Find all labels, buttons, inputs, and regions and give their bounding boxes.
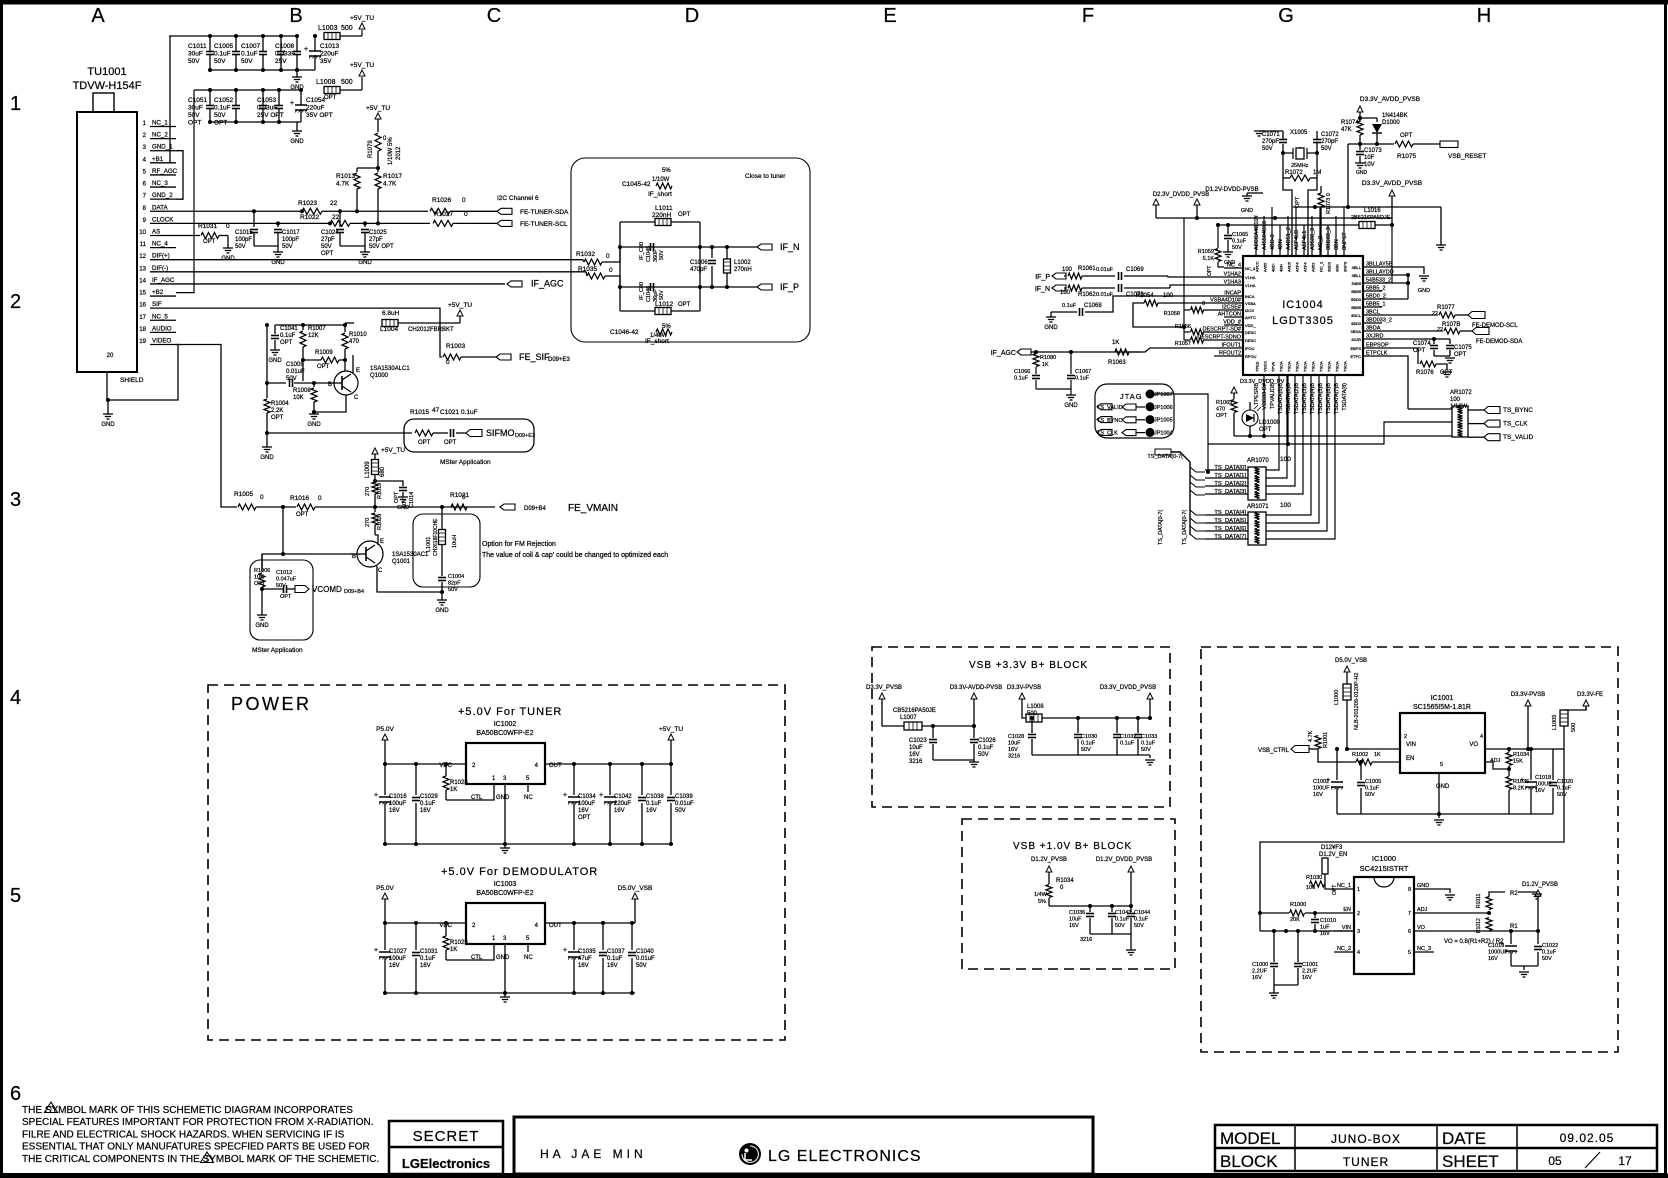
svg-text:D12¥F3: D12¥F3 [1321, 845, 1343, 851]
svg-text:The value of coil & cap' could: The value of coil & cap' could be change… [482, 552, 668, 559]
svg-text:R107B: R107B [1442, 322, 1460, 328]
svg-text:IF_C80: IF_C80 [639, 282, 645, 300]
power +5V_TU arrow L1009 [372, 448, 378, 454]
svg-text:16V: 16V [646, 808, 657, 814]
svg-text:50V: 50V [448, 587, 458, 593]
svg-text:10uF: 10uF [1008, 741, 1021, 747]
svg-text:C1002: C1002 [1313, 779, 1329, 785]
svg-text:C1020: C1020 [1557, 779, 1573, 785]
wire DIF+ line [176, 259, 583, 261]
power D3.3V_PVSB [879, 693, 885, 699]
svg-text:50V: 50V [1262, 146, 1273, 152]
ground vsb33 [1149, 755, 1151, 758]
svg-text:+5.0V For TUNER: +5.0V For TUNER [458, 706, 562, 718]
svg-text:R1057: R1057 [1175, 341, 1191, 347]
svg-text:R1003: R1003 [446, 343, 466, 350]
svg-text:16V: 16V [909, 752, 920, 758]
svg-text:470: 470 [349, 339, 360, 345]
svg-text:D3.3V_DVDD_PV: D3.3V_DVDD_PV [1240, 379, 1285, 385]
gnd IC1001 [1438, 773, 1440, 814]
svg-text:IF_P: IF_P [780, 282, 799, 292]
svg-text:CH2618F10CHE: CH2618F10CHE [433, 518, 439, 556]
svg-text:IC1000: IC1000 [1372, 854, 1396, 863]
svg-text:2: 2 [10, 291, 21, 313]
svg-text:D09+B4: D09+B4 [344, 589, 364, 595]
svg-text:C1021 0.1uF: C1021 0.1uF [440, 409, 478, 416]
power D1.2V_DVDD_PVSB [1128, 866, 1134, 872]
svg-text:Close to tuner: Close to tuner [745, 173, 786, 180]
regulator IC1000 body [1354, 877, 1414, 974]
svg-text:R1080: R1080 [1040, 355, 1056, 361]
svg-text:C: C [487, 5, 501, 27]
svg-text:0.1uF: 0.1uF [1120, 741, 1135, 747]
svg-text:OPT: OPT [324, 95, 337, 101]
vertical from D3.3V down right side of IC [1391, 225, 1393, 283]
svg-text:VSB_CTRL: VSB_CTRL [1258, 748, 1290, 754]
svg-text:OPT: OPT [203, 239, 216, 245]
svg-text:D3.3V-PVSB: D3.3V-PVSB [1511, 692, 1545, 698]
svg-text:GND: GND [1241, 208, 1253, 214]
svg-text:C1030: C1030 [1081, 734, 1097, 740]
svg-text:AR1072: AR1072 [1450, 390, 1472, 396]
wire from IC1001 down to here [1260, 749, 1564, 931]
wire JP1007 riser [1152, 394, 1208, 472]
svg-text:3BLL: 3BLL [1352, 273, 1362, 278]
resistor R1027 [433, 220, 453, 226]
svg-text:L1008: L1008 [1027, 704, 1044, 710]
svg-text:TSDA: TSDA [1295, 361, 1300, 372]
svg-text:3BD33_3: 3BD33_3 [1326, 227, 1332, 250]
svg-text:I2CS: I2CS [1245, 308, 1254, 313]
svg-text:10: 10 [139, 230, 146, 236]
svg-text:TSDA: TSDA [1335, 361, 1340, 372]
resistor R1075 OPT [1395, 141, 1413, 147]
svg-text:C1032: C1032 [1120, 734, 1136, 740]
net tag SIFMO [466, 430, 482, 437]
capacitor C1072 [1313, 139, 1321, 141]
svg-text:500: 500 [341, 79, 353, 86]
resistor R1008 10K [313, 383, 315, 387]
wire GND1/GND2 bracket [176, 151, 183, 200]
bottom rail IC1001 [1337, 813, 1439, 815]
svg-text:C1004: C1004 [448, 574, 464, 580]
wire vin [1347, 748, 1400, 750]
svg-text:C1013: C1013 [320, 43, 340, 50]
power D5.0V_VSB arrow [632, 893, 638, 899]
svg-text:10uF: 10uF [909, 745, 923, 751]
svg-text:FE-TUNER-SCL: FE-TUNER-SCL [520, 221, 568, 228]
capacitor C1010 [1313, 911, 1317, 915]
svg-text:16V: 16V [1252, 975, 1262, 981]
svg-text:16V: 16V [1488, 956, 1498, 962]
svg-text:OPT: OPT [1332, 885, 1338, 895]
svg-text:12K: 12K [308, 333, 319, 339]
ground C1071 [1259, 130, 1283, 132]
svg-text:MSter Application: MSter Application [440, 459, 491, 466]
svg-text:0.1uF: 0.1uF [1075, 376, 1090, 382]
ground AS [223, 247, 233, 249]
svg-text:16V: 16V [389, 808, 400, 814]
svg-text:A5F4: A5F4 [1295, 262, 1300, 272]
svg-text:E: E [883, 5, 896, 27]
top rail bus 2 [194, 89, 301, 91]
svg-text:OPT: OPT [296, 512, 309, 518]
svg-text:GND_2: GND_2 [152, 192, 173, 199]
svg-text:OPT: OPT [1207, 266, 1213, 276]
svg-text:IF_short: IF_short [645, 338, 669, 345]
svg-text:GND: GND [221, 256, 235, 262]
svg-text:GND: GND [1356, 170, 1368, 176]
wires right pins to nets [1382, 267, 1424, 274]
net tag VCOMD [295, 586, 309, 593]
svg-text:NC: NC [524, 795, 533, 801]
svg-text:L1003: L1003 [318, 25, 338, 32]
svg-text:TPES: TPES [1255, 361, 1260, 372]
svg-text:POWER: POWER [231, 694, 312, 714]
svg-text:R1061: R1061 [1078, 266, 1096, 272]
svg-text:C1009: C1009 [286, 362, 304, 368]
svg-text:C1022: C1022 [1542, 943, 1558, 949]
svg-text:OPT: OPT [1216, 413, 1228, 419]
svg-text:C1075: C1075 [1454, 345, 1472, 351]
regulator IC1002 [466, 743, 545, 784]
svg-text:OPT: OPT [271, 415, 284, 421]
vertical bus x1408 [1407, 275, 1409, 299]
svg-text:+B1: +B1 [152, 156, 164, 163]
svg-text:C1044: C1044 [1134, 910, 1150, 916]
svg-text:C1065: C1065 [1232, 232, 1248, 238]
svg-text:D2.3V_DVDD_PVSB: D2.3V_DVDD_PVSB [1153, 192, 1209, 198]
svg-text:0.1uF: 0.1uF [1081, 741, 1096, 747]
svg-text:100: 100 [1450, 397, 1461, 403]
caps C1002 C1005b [1335, 747, 1339, 751]
wire VO IC1000 [1434, 930, 1538, 932]
svg-text:17: 17 [139, 315, 146, 321]
svg-text:TSDA: TSDA [1319, 361, 1324, 372]
svg-text:C1033: C1033 [1141, 734, 1157, 740]
svg-text:50V: 50V [978, 752, 989, 758]
svg-text:OPT: OPT [280, 594, 292, 600]
svg-text:GND: GND [1044, 325, 1058, 331]
svg-text:TU1001: TU1001 [87, 66, 126, 78]
svg-text:R1026: R1026 [432, 197, 452, 204]
svg-text:100: 100 [1280, 456, 1291, 463]
power D3.3V-PVSB 2 [1019, 693, 1025, 699]
collector wire to R1008 node [314, 395, 346, 412]
svg-text:OPT: OPT [1400, 133, 1413, 139]
regulator IC1003 [466, 903, 545, 944]
svg-text:C1052: C1052 [214, 97, 234, 104]
svg-text:R1000: R1000 [1290, 902, 1306, 908]
svg-text:4: 4 [1480, 734, 1483, 740]
svg-text:50V: 50V [235, 244, 246, 250]
svg-text:GND: GND [307, 422, 321, 428]
svg-text:0.01uF: 0.01uF [286, 369, 305, 375]
svg-text:82pF: 82pF [448, 581, 461, 587]
svg-text:DIF(-): DIF(-) [152, 265, 168, 272]
svg-text:INCA: INCA [1245, 294, 1255, 299]
svg-text:GND: GND [496, 795, 510, 801]
svg-text:TS_CLK: TS_CLK [1503, 421, 1528, 428]
svg-text:3NPST: 3NPST [1342, 232, 1348, 250]
svg-text:16V: 16V [1069, 923, 1079, 929]
svg-text:3BD033_2: 3BD033_2 [1366, 318, 1392, 324]
svg-text:50V: 50V [659, 250, 665, 260]
svg-text:3BD0: 3BD0 [1351, 321, 1362, 326]
power D5.0V_VSB arrow [1344, 666, 1350, 672]
svg-text:VIN: VIN [1342, 925, 1351, 931]
svg-text:VO: VO [1469, 742, 1478, 748]
svg-text:3BDA: 3BDA [1366, 326, 1381, 332]
svg-text:1K: 1K [450, 947, 457, 953]
svg-text:OPT: OPT [418, 440, 431, 446]
svg-text:IF_AGC: IF_AGC [531, 278, 564, 288]
caps C1028 C1030 C1032 C1033 [1030, 716, 1034, 720]
ground C1066 C1067 [1036, 388, 1071, 390]
svg-text:I2CSE#: I2CSE# [1222, 305, 1242, 311]
svg-text:16V: 16V [420, 963, 431, 969]
svg-text:4: 4 [10, 687, 21, 709]
svg-text:+: + [599, 792, 603, 799]
svg-text:10F: 10F [1364, 155, 1375, 161]
svg-text:TS_DATA[2]: TS_DATA[2] [1214, 481, 1246, 487]
caps C1018 C1020 [1530, 749, 1532, 780]
wires into AR1072 left [1408, 408, 1452, 410]
svg-text:D5.0V_VSB: D5.0V_VSB [1335, 658, 1367, 664]
wires AR1072 to TS tags [1468, 409, 1484, 411]
wire IF_N [620, 246, 757, 248]
svg-text:C1031: C1031 [420, 949, 438, 955]
resistor R1031 on AS pin [176, 234, 200, 236]
svg-text:!: ! [50, 1106, 52, 1113]
capacitor C1006 470pF [711, 247, 713, 258]
svg-text:C1024: C1024 [321, 230, 339, 236]
svg-text:C1051: C1051 [188, 97, 208, 104]
svg-text:TS_BYNC: TS_BYNC [1503, 407, 1533, 414]
wire ETPCLK to AR1072 [1382, 356, 1408, 409]
IC1004 right pins [1363, 266, 1382, 268]
TS_DATA fan bundle [1171, 452, 1190, 535]
svg-text:Q1000: Q1000 [370, 373, 389, 379]
power +5V_TU for L1004 [457, 310, 463, 316]
svg-text:NC_4: NC_4 [152, 241, 168, 248]
svg-text:+5.0V For DEMODULATOR: +5.0V For DEMODULATOR [441, 866, 598, 878]
wire DIF- line [176, 271, 586, 273]
svg-text:OPT: OPT [317, 364, 330, 370]
power P5.0V arrow tuner [382, 734, 388, 740]
svg-text:R1076: R1076 [1416, 370, 1434, 376]
svg-text:IC1001: IC1001 [1431, 695, 1454, 702]
svg-text:IF_C80: IF_C80 [639, 242, 645, 260]
svg-text:C1042: C1042 [614, 794, 632, 800]
ground L1016 right [1436, 244, 1446, 246]
svg-text:A5F4L1: A5F4L1 [1302, 231, 1308, 250]
svg-text:C1005: C1005 [214, 43, 234, 50]
svg-text:C1035: C1035 [578, 949, 596, 955]
svg-text:220uF: 220uF [614, 801, 631, 807]
capacitor C1069 series [1118, 272, 1120, 280]
capacitor C1073 10uF [1359, 144, 1361, 150]
inductor L1005 vertical [1583, 700, 1589, 706]
resistor R1034 ADJ [1507, 747, 1511, 751]
svg-text:TS_DATA[0-7(: TS_DATA[0-7( [1182, 510, 1188, 545]
svg-text:0.033F: 0.033F [275, 51, 295, 58]
svg-text:2: 2 [1357, 911, 1360, 917]
svg-text:1M: 1M [1313, 170, 1321, 176]
svg-text:0.01uF: 0.01uF [1096, 267, 1114, 273]
POWER dashed box [208, 685, 785, 1040]
resistor R1029 1K [445, 950, 447, 960]
svg-text:100: 100 [1280, 502, 1291, 509]
capacitor C1026 [973, 726, 975, 738]
svg-text:JTAG: JTAG [1120, 392, 1143, 401]
svg-text:3: 3 [1357, 929, 1360, 935]
capacitor C1065 [1226, 223, 1230, 227]
resistor array AR1071 [1248, 512, 1266, 545]
svg-text:C1071: C1071 [1262, 132, 1280, 138]
svg-text:R1013: R1013 [336, 173, 356, 180]
svg-text:0.01uF: 0.01uF [636, 956, 655, 962]
svg-text:18: 18 [139, 327, 146, 333]
svg-text:NC: NC [524, 955, 533, 961]
svg-text:1K: 1K [1374, 752, 1381, 758]
svg-text:VSB +3.3V B+ BLOCK: VSB +3.3V B+ BLOCK [969, 660, 1088, 671]
svg-text:C1068: C1068 [1084, 303, 1102, 309]
svg-text:1SA1530AC1: 1SA1530AC1 [392, 552, 429, 558]
svg-text:3216: 3216 [1080, 937, 1092, 943]
right caps demod [573, 923, 575, 950]
wire IF_P [620, 286, 757, 288]
svg-text:16V: 16V [607, 963, 618, 969]
svg-text:1K: 1K [1112, 340, 1119, 346]
resistor R1072 1M [1282, 153, 1284, 178]
resistor R1019 270 [372, 482, 378, 494]
svg-text:1/10W: 1/10W [652, 177, 670, 183]
svg-text:TSDA: TSDA [1343, 361, 1348, 372]
svg-text:I2C Channel 6: I2C Channel 6 [497, 195, 539, 202]
svg-text:D3.3V-AVDD-PVSB: D3.3V-AVDD-PVSB [950, 685, 1003, 691]
IF coupling network wires [620, 221, 655, 223]
capacitor C1067 [1069, 350, 1073, 354]
inductor L1004 6.8uH [382, 320, 398, 327]
wire FE_VMAIN right [450, 506, 495, 508]
svg-text:IF_N: IF_N [1035, 286, 1050, 293]
svg-text:470: 470 [1216, 407, 1225, 413]
svg-text:C1066: C1066 [1014, 369, 1030, 375]
svg-text:1N414BK: 1N414BK [1382, 113, 1408, 119]
svg-text:7: 7 [1408, 911, 1411, 917]
svg-text:D3.3V-FE: D3.3V-FE [1577, 692, 1603, 698]
svg-text:INCAP: INCAP [1224, 291, 1241, 297]
svg-text:NC_3: NC_3 [1417, 946, 1431, 952]
resistor R1013 4.7K [376, 166, 380, 170]
svg-text:16V: 16V [389, 963, 400, 969]
capacitor C1013 220uF polarized [314, 36, 316, 51]
caps C1019 C1022 [1510, 931, 1512, 944]
svg-text:IC1003: IC1003 [494, 881, 517, 888]
svg-text:A953: A953 [1311, 262, 1316, 272]
bottom rail right IC1001 [1439, 813, 1553, 815]
wire SIF to FE_SIF [176, 308, 442, 357]
svg-text:TPVALIDB: TPVALIDB [1270, 383, 1276, 410]
svg-text:D3.3V_DVDD_PVSB: D3.3V_DVDD_PVSB [1100, 685, 1156, 691]
svg-text:Q1001: Q1001 [392, 559, 411, 565]
svg-text:IF_AGC: IF_AGC [991, 350, 1016, 357]
capacitor C1024 27pF [339, 211, 341, 227]
warning triangle 2 [201, 1152, 214, 1163]
ground C1019 [1523, 966, 1525, 970]
svg-text:1K: 1K [1042, 362, 1049, 368]
svg-text:R1016: R1016 [290, 495, 310, 502]
svg-text:50V OPT: 50V OPT [369, 244, 394, 250]
svg-text:B: B [352, 554, 356, 560]
svg-text:R1054: R1054 [1136, 293, 1154, 299]
svg-text:3BDA: 3BDA [1351, 329, 1362, 334]
svg-text:5%: 5% [1038, 899, 1046, 905]
svg-text:R1032: R1032 [576, 251, 596, 258]
svg-text:6: 6 [10, 1083, 21, 1105]
wires from arrays to IC bottom pins staircase [1266, 375, 1279, 470]
svg-text:C1069: C1069 [1126, 267, 1144, 273]
svg-text:FE_VMAIN: FE_VMAIN [568, 503, 618, 514]
CTL loop demod [446, 952, 494, 960]
svg-text:0.01uF: 0.01uF [675, 801, 694, 807]
svg-text:22: 22 [1437, 327, 1443, 333]
svg-text:0.1uF: 0.1uF [607, 956, 623, 962]
svg-text:10uH: 10uH [452, 535, 458, 548]
resistor R1007 12K [302, 325, 304, 330]
power P5.0V arrow demod [382, 893, 388, 899]
svg-text:JUNO-BOX: JUNO-BOX [1331, 1132, 1401, 1146]
ground C1015/C1017 [277, 246, 279, 252]
svg-text:50V: 50V [1081, 747, 1091, 753]
capacitor C1015 100pF [253, 211, 255, 227]
ground tuner shield [103, 413, 113, 415]
svg-text:C1074: C1074 [1413, 341, 1431, 347]
svg-text:1uF: 1uF [1320, 925, 1330, 931]
svg-text:OPT: OPT [1259, 427, 1272, 433]
svg-text:0: 0 [606, 253, 610, 260]
svg-text:L1009: L1009 [365, 461, 371, 478]
svg-text:ADJ: ADJ [1417, 907, 1428, 913]
svg-text:3XJRD: 3XJRD [1366, 334, 1383, 340]
svg-text:0: 0 [1202, 301, 1205, 307]
svg-text:L1004: L1004 [380, 326, 398, 333]
svg-text:LD1000: LD1000 [1259, 420, 1281, 426]
svg-text:C1018: C1018 [1535, 775, 1551, 781]
svg-text:0.1uF: 0.1uF [1232, 239, 1247, 245]
capacitor C1046 series lower [650, 283, 652, 291]
ground R1008 [309, 413, 319, 415]
svg-text:A9533_3: A9533_3 [1310, 228, 1316, 250]
power +5V_TU arrow for R1079 [375, 113, 381, 119]
svg-text:C1034: C1034 [578, 794, 596, 800]
svg-text:C1038: C1038 [646, 794, 664, 800]
resistors R1011 R2 / R1012 R1 [1487, 911, 1491, 915]
svg-text:3BLL: 3BLL [1352, 265, 1362, 270]
resistor R1079 [377, 119, 379, 132]
svg-text:GND: GND [1418, 288, 1430, 294]
svg-text:C1073: C1073 [1364, 148, 1382, 154]
bottom right dashed box [1201, 647, 1618, 1052]
svg-text:GND: GND [358, 260, 372, 266]
svg-text:TS_VALID: TS_VALID [1503, 434, 1534, 441]
svg-text:5BB5_1: 5BB5_1 [1366, 302, 1386, 308]
svg-text:0.1uF: 0.1uF [1062, 303, 1077, 309]
resistor R1020 270 [374, 507, 376, 512]
wire vdc demod [385, 922, 466, 924]
svg-text:TS_DATA[1]: TS_DATA[1] [1214, 473, 1246, 479]
